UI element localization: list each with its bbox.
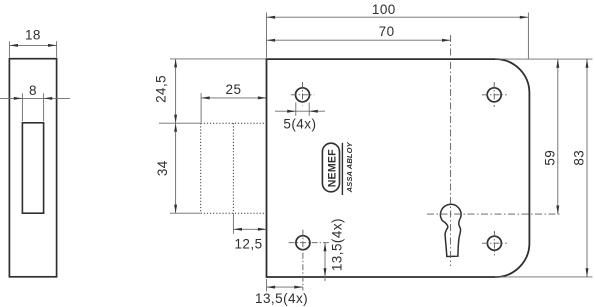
svg-text:8: 8 — [29, 83, 37, 98]
dimension 8: arrowheads (outside, pointing inward) — [14, 97, 52, 100]
ASSA ABLOY rule line — [341, 143, 343, 195]
svg-text:12,5: 12,5 — [234, 236, 262, 251]
dimension 13,5(4x) vertical: dimension line — [324, 243, 326, 281]
svg-text:83: 83 — [571, 150, 586, 166]
dimension 12,5: extension line below case — [232, 213, 234, 234]
svg-text:13,5(4x): 13,5(4x) — [330, 218, 345, 271]
NEMEF logo stadium outline — [322, 143, 339, 192]
dimension 24,5 / 34: extension line at plate top level — [170, 58, 267, 60]
screw hole top-right centerlines — [482, 82, 507, 107]
dimension 12,5: arrowheads — [233, 228, 266, 231]
hidden lock case: dotted bottom edge — [201, 212, 267, 214]
svg-text:5(4x): 5(4x) — [283, 117, 316, 132]
dimension 59: arrowheads — [556, 59, 559, 214]
screw hole bottom-left — [296, 236, 310, 250]
svg-text:100: 100 — [372, 2, 396, 17]
dimension 70: arrowheads — [267, 39, 451, 42]
keyhole — [440, 204, 461, 256]
dimension 83: extension lines (top and bottom edges extended right) — [495, 59, 593, 277]
dimension 59: dimension line — [557, 59, 559, 214]
svg-text:18: 18 — [25, 28, 41, 43]
svg-text:ASSA ABLOY: ASSA ABLOY — [345, 141, 354, 193]
dimension 8: dimension line — [0, 97, 70, 99]
dimension 24,5 / 34: extension line at case bottom level — [170, 212, 201, 214]
dimension 18: dimension line — [9, 44, 56, 46]
screw hole bottom-left centerlines — [289, 230, 329, 291]
lock plate outline (rounded right corners) — [267, 59, 530, 277]
dimension 70: dimension line — [267, 39, 451, 41]
dimension 18: extension lines — [9, 41, 56, 57]
left view: faceplate outer rectangle — [9, 59, 56, 277]
keyhole horizontal centerline — [427, 213, 561, 215]
dimension 13,5(4x) bottom: arrowheads — [267, 286, 303, 289]
dimension 13,5(4x) vertical: arrowheads — [324, 243, 327, 277]
dimension 83: arrowheads — [586, 59, 589, 277]
left view: slot cutout — [22, 123, 43, 213]
svg-text:59: 59 — [542, 150, 557, 166]
svg-text:NEMEF: NEMEF — [326, 149, 338, 187]
dimension 24,5 / 34: arrowheads — [174, 59, 177, 213]
svg-text:24,5: 24,5 — [154, 75, 169, 103]
svg-text:13,5(4x): 13,5(4x) — [255, 291, 308, 306]
hidden lock case: dotted left edge — [200, 123, 202, 213]
screw hole bottom-right — [487, 236, 501, 250]
hidden lock case: dotted top edge — [201, 122, 267, 124]
dimension 5(4x): arrowheads (outside, pointing inward) — [287, 110, 318, 113]
svg-text:70: 70 — [379, 24, 395, 39]
screw hole top-left centerlines — [291, 82, 315, 106]
screw hole bottom-right centerlines — [482, 231, 507, 255]
screw hole top-left — [296, 88, 310, 102]
dimension 24,5 / 34: vertical dimension line — [175, 59, 177, 213]
dimension 5(4x): dimension line — [275, 110, 325, 112]
dimension 25: extension line — [200, 93, 202, 122]
svg-text:25: 25 — [226, 82, 242, 97]
dimension 18: arrowheads — [9, 44, 56, 47]
dimension 83: dimension line — [586, 59, 588, 277]
keyhole vertical centerline — [450, 35, 452, 266]
dimension 5(4x): extension lines — [296, 103, 309, 116]
dimension 12,5: dimension line — [233, 228, 266, 230]
screw hole top-right — [487, 88, 501, 102]
svg-text:34: 34 — [155, 160, 170, 176]
dimension 13,5(4x) bottom: dimension line — [267, 286, 303, 288]
hidden lock case: dotted inner vertical line (12,5 offset) — [232, 123, 234, 213]
dimension 13,5(4x) bottom: extension line (plate left edge extended down) — [266, 279, 268, 292]
dimension 100: arrowheads — [267, 16, 529, 19]
dimension 25: arrowheads — [201, 96, 266, 99]
dimension 100: extension lines — [267, 13, 529, 59]
dimension 25: dimension line — [201, 97, 266, 99]
dimension 8: extension lines — [22, 93, 43, 121]
dimension 24,5 / 34: extension line at case top level — [159, 122, 200, 124]
dimension 100: dimension line — [267, 16, 529, 18]
